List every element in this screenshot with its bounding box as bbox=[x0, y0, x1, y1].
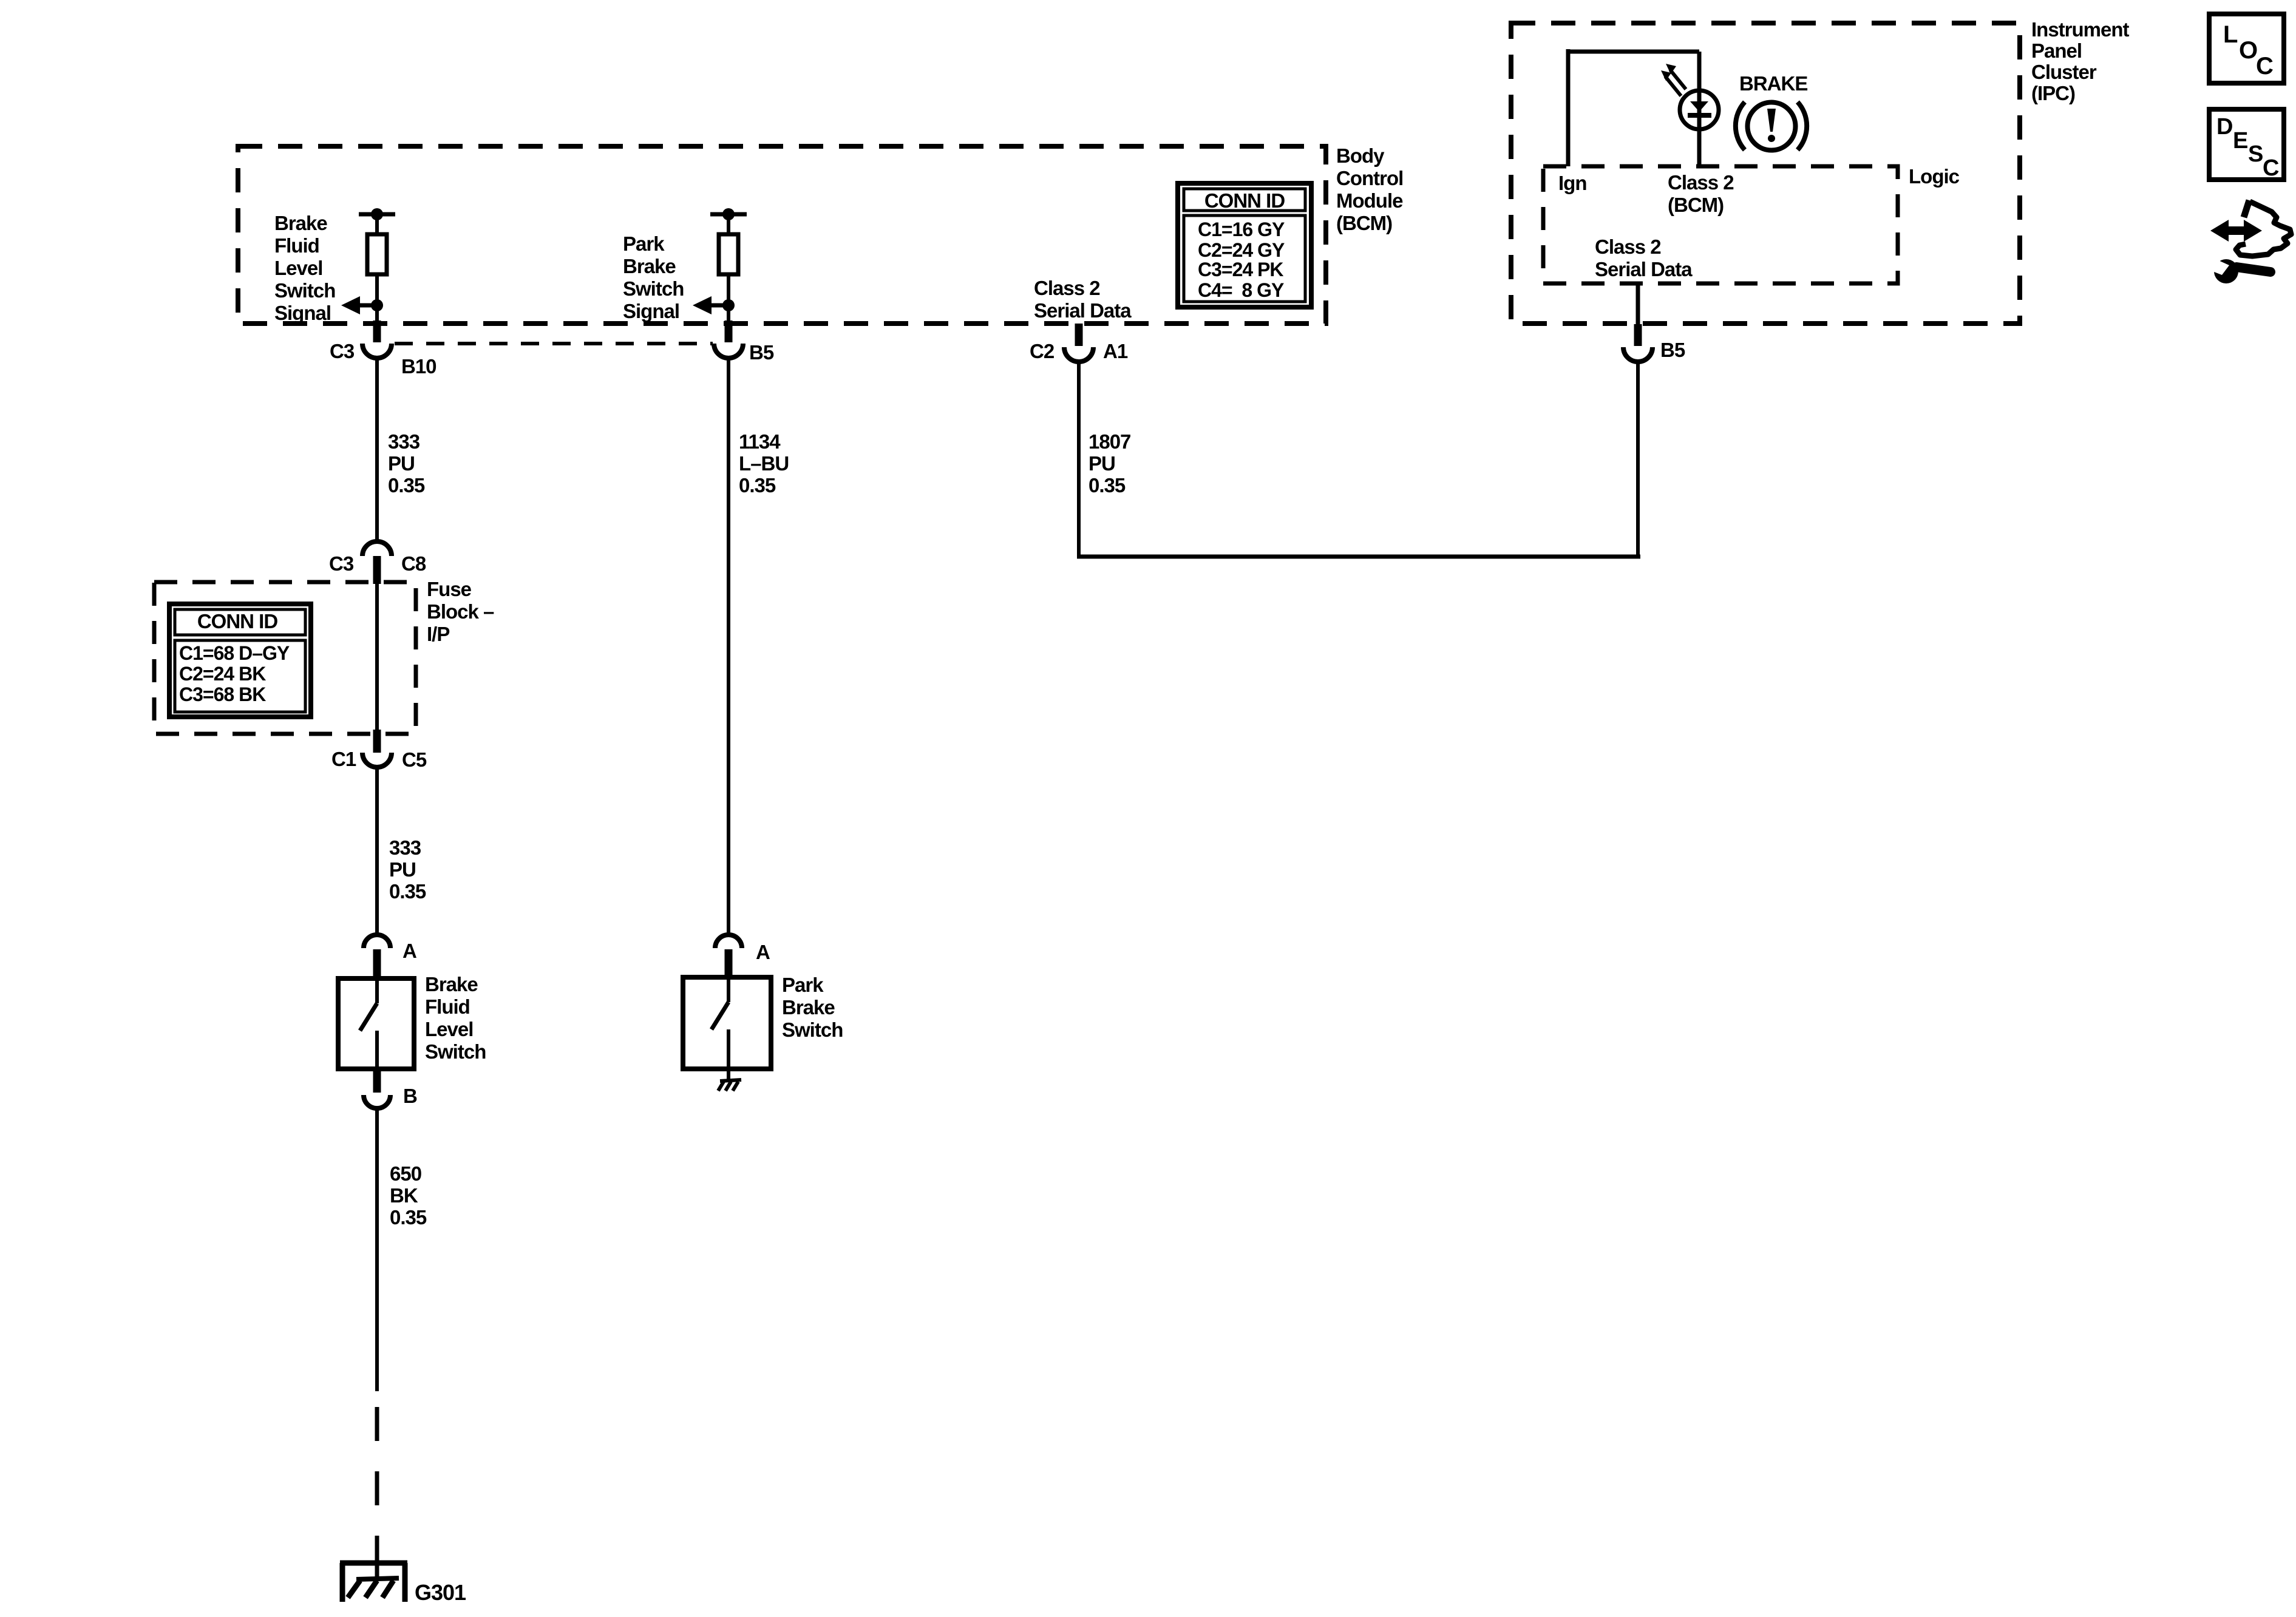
svg-text:Class 2: Class 2 bbox=[1034, 277, 1100, 299]
svg-text:C3=68 BK: C3=68 BK bbox=[179, 683, 266, 705]
connector C2 / A1 bbox=[1030, 340, 1128, 362]
svg-text:C3=24 PK: C3=24 PK bbox=[1198, 259, 1283, 280]
svg-text:C2=24 GY: C2=24 GY bbox=[1198, 239, 1285, 261]
arrow signal out column 2 bbox=[693, 296, 729, 314]
svg-text:Serial Data: Serial Data bbox=[1034, 299, 1132, 322]
label Class 2 Serial Data (IPC) bbox=[1595, 236, 1693, 280]
svg-text:Module: Module bbox=[1336, 189, 1403, 212]
svg-text:Switch: Switch bbox=[274, 279, 335, 302]
icon LOC box bbox=[2209, 14, 2284, 83]
icon hand with double arrow and wrench bbox=[2208, 200, 2291, 283]
svg-text:Cluster: Cluster bbox=[2031, 61, 2097, 83]
wire top bar column 1 bbox=[359, 212, 395, 217]
svg-text:1807: 1807 bbox=[1089, 430, 1130, 453]
connector C3 / C8 (fuse block) bbox=[329, 541, 426, 575]
box Instrument Panel Cluster (IPC) dashed outline bbox=[1511, 23, 2020, 324]
wire below connector B5 IPC bbox=[1636, 362, 1640, 558]
wire stub into park brake switch bbox=[725, 949, 733, 977]
svg-text:Instrument: Instrument bbox=[2031, 18, 2130, 41]
svg-text:L–BU: L–BU bbox=[739, 452, 789, 475]
wire top horizontal IPC bbox=[1566, 50, 1699, 54]
svg-text:Brake: Brake bbox=[623, 255, 676, 277]
svg-text:C1=68 D–GY: C1=68 D–GY bbox=[179, 642, 290, 664]
icon DESC box bbox=[2209, 109, 2284, 181]
label Instrument Panel Cluster (IPC) bbox=[2031, 18, 2130, 104]
connector B5 (IPC) bbox=[1623, 339, 1685, 362]
svg-text:Signal: Signal bbox=[623, 300, 679, 322]
svg-text:Switch: Switch bbox=[623, 277, 684, 300]
svg-text:O: O bbox=[2239, 37, 2257, 64]
connector C3 / B10 bbox=[330, 340, 436, 378]
wire 1134 L-BU bbox=[727, 358, 730, 935]
table CONN ID (BCM) bbox=[1178, 183, 1311, 307]
svg-text:C8: C8 bbox=[401, 552, 426, 575]
svg-text:Ign: Ign bbox=[1558, 172, 1586, 194]
svg-text:333: 333 bbox=[388, 430, 420, 453]
svg-text:(IPC): (IPC) bbox=[2031, 82, 2075, 104]
wire stub at fuse block exit bbox=[373, 730, 381, 753]
svg-text:Brake: Brake bbox=[274, 212, 327, 234]
svg-text:Fuse: Fuse bbox=[427, 578, 472, 600]
wire stub at BCM edge column 1 bbox=[373, 320, 381, 342]
svg-text:C4= 8 GY: C4= 8 GY bbox=[1198, 279, 1284, 301]
wire class 2 serial data horizontal bbox=[1077, 555, 1640, 559]
wire LED vertical bbox=[1697, 52, 1702, 166]
svg-text:BK: BK bbox=[390, 1184, 418, 1207]
svg-text:0.35: 0.35 bbox=[389, 880, 426, 903]
wire inside fuse block bbox=[375, 584, 379, 731]
svg-text:0.35: 0.35 bbox=[739, 474, 776, 497]
label wire 333 PU 0.35 lower bbox=[389, 836, 426, 903]
svg-text:A: A bbox=[402, 940, 416, 962]
svg-text:Class 2: Class 2 bbox=[1595, 236, 1661, 258]
wire stub at BCM edge class 2 bbox=[1075, 324, 1083, 346]
svg-text:(BCM): (BCM) bbox=[1668, 194, 1724, 216]
dotted in-line connector line C3 to B5 bbox=[395, 342, 713, 345]
svg-text:B10: B10 bbox=[401, 355, 436, 378]
label wire 1807 PU 0.35 bbox=[1089, 430, 1130, 497]
wire bbox=[375, 214, 379, 234]
svg-text:1134: 1134 bbox=[739, 430, 781, 453]
wire 333 PU lower bbox=[375, 767, 379, 935]
svg-text:Brake: Brake bbox=[782, 996, 835, 1019]
svg-text:B5: B5 bbox=[1660, 339, 1685, 361]
wire bbox=[727, 274, 730, 322]
label wire 650 BK 0.35 bbox=[390, 1162, 427, 1229]
label Class 2 (BCM) bbox=[1668, 171, 1734, 216]
svg-text:Switch: Switch bbox=[782, 1019, 843, 1041]
svg-text:Brake: Brake bbox=[425, 973, 478, 995]
svg-text:C1: C1 bbox=[331, 748, 356, 770]
svg-text:C3: C3 bbox=[330, 340, 355, 362]
connector B (brake fluid level switch) bbox=[364, 1085, 417, 1108]
box Logic dashed outline bbox=[1543, 166, 1898, 283]
svg-text:A1: A1 bbox=[1103, 340, 1128, 362]
wire bbox=[375, 274, 379, 322]
svg-text:(BCM): (BCM) bbox=[1336, 212, 1392, 234]
LED indicator (BRAKE lamp) bbox=[1661, 64, 1719, 129]
svg-text:Control: Control bbox=[1336, 167, 1403, 189]
node junction dot column 1 top bbox=[371, 208, 383, 220]
svg-text:C2=24 BK: C2=24 BK bbox=[179, 663, 266, 685]
wire stub into fuse block bbox=[373, 556, 381, 584]
node junction dot column 2 top bbox=[722, 208, 735, 220]
wire 1807 PU vertical bbox=[1077, 362, 1081, 558]
connector A (brake fluid level switch) bbox=[364, 935, 416, 962]
label wire 1134 L-BU 0.35 bbox=[739, 430, 789, 497]
svg-text:PU: PU bbox=[388, 452, 415, 475]
label Brake Fluid Level Switch bbox=[425, 973, 486, 1063]
svg-text:PU: PU bbox=[1089, 452, 1115, 475]
svg-text:Level: Level bbox=[274, 257, 322, 279]
svg-text:0.35: 0.35 bbox=[390, 1206, 427, 1229]
label Body Control Module (BCM) bbox=[1336, 144, 1403, 234]
svg-text:CONN ID: CONN ID bbox=[1204, 189, 1285, 212]
svg-text:C5: C5 bbox=[402, 748, 427, 771]
wire top bar column 2 bbox=[710, 212, 747, 217]
switch S2 Park Brake Switch bbox=[683, 977, 771, 1069]
ground chassis (park brake switch) bbox=[718, 1069, 741, 1091]
label wire 333 PU 0.35 bbox=[388, 430, 425, 497]
connector A (park brake switch) bbox=[715, 935, 770, 963]
label Fuse Block - I/P bbox=[427, 578, 494, 645]
box Fuse Block - I/P dashed outline bbox=[154, 582, 416, 734]
svg-text:B: B bbox=[403, 1085, 417, 1107]
svg-text:Fluid: Fluid bbox=[425, 995, 470, 1018]
svg-text:Switch: Switch bbox=[425, 1040, 486, 1063]
wire 333 PU bbox=[375, 358, 379, 542]
table CONN ID (fuse block) bbox=[169, 604, 311, 717]
svg-text:I/P: I/P bbox=[427, 623, 449, 645]
wire bbox=[727, 214, 730, 234]
wire stub at IPC edge bbox=[1634, 324, 1642, 346]
svg-text:Logic: Logic bbox=[1909, 165, 1960, 188]
wire dashed to ground bbox=[375, 1407, 379, 1551]
svg-text:D: D bbox=[2216, 114, 2232, 140]
svg-text:C1=16 GY: C1=16 GY bbox=[1198, 219, 1285, 240]
label Brake Fluid Level Switch Signal bbox=[274, 212, 335, 324]
svg-text:A: A bbox=[756, 941, 770, 963]
svg-text:0.35: 0.35 bbox=[388, 474, 425, 497]
wire class 2 serial data IPC vertical bbox=[1636, 283, 1640, 324]
svg-text:S: S bbox=[2248, 141, 2263, 167]
svg-text:B5: B5 bbox=[749, 341, 774, 364]
svg-text:Park: Park bbox=[623, 232, 665, 255]
wire stub into switch bbox=[373, 949, 381, 978]
ground G301 bbox=[340, 1549, 466, 1605]
svg-text:G301: G301 bbox=[415, 1580, 466, 1605]
resistor R1 (brake fluid pull-up) bbox=[367, 234, 387, 274]
svg-text:Level: Level bbox=[425, 1018, 473, 1040]
svg-text:BRAKE: BRAKE bbox=[1739, 72, 1807, 95]
label Class 2 Serial Data (BCM pin) bbox=[1034, 277, 1132, 322]
svg-text:C: C bbox=[2263, 155, 2279, 181]
label Park Brake Switch bbox=[782, 974, 843, 1041]
svg-text:Class 2: Class 2 bbox=[1668, 171, 1734, 194]
svg-text:CONN ID: CONN ID bbox=[197, 610, 278, 632]
svg-text:650: 650 bbox=[390, 1162, 421, 1185]
wire Ign vertical bbox=[1566, 49, 1571, 166]
svg-text:333: 333 bbox=[389, 836, 421, 859]
svg-text:C2: C2 bbox=[1030, 340, 1055, 362]
wire stub below switch bbox=[373, 1068, 381, 1093]
box Body Control Module (BCM) dashed outline bbox=[238, 146, 1326, 324]
svg-text:E: E bbox=[2233, 128, 2247, 154]
svg-text:Block –: Block – bbox=[427, 600, 494, 623]
svg-text:C3: C3 bbox=[329, 552, 354, 575]
svg-text:Park: Park bbox=[782, 974, 824, 996]
node junction dot column 2 arrow bbox=[722, 299, 735, 311]
svg-text:0.35: 0.35 bbox=[1089, 474, 1126, 497]
svg-text:Panel: Panel bbox=[2031, 39, 2082, 62]
svg-text:L: L bbox=[2223, 21, 2238, 48]
node junction dot column 1 arrow bbox=[371, 299, 383, 311]
resistor R2 (park brake pull-up) bbox=[719, 234, 738, 274]
svg-text:Signal: Signal bbox=[274, 302, 331, 324]
connector C1 / C5 bbox=[331, 748, 427, 771]
svg-text:Serial Data: Serial Data bbox=[1595, 258, 1693, 280]
svg-text:C: C bbox=[2256, 53, 2273, 80]
svg-text:PU: PU bbox=[389, 858, 416, 881]
svg-text:Body: Body bbox=[1336, 144, 1385, 167]
svg-text:Fluid: Fluid bbox=[274, 234, 319, 257]
switch S1 Brake Fluid Level Switch bbox=[338, 978, 414, 1069]
wire stub at BCM edge column 2 bbox=[725, 320, 733, 342]
label Park Brake Switch Signal bbox=[623, 232, 684, 322]
connector B5 (BCM park brake) bbox=[714, 341, 774, 364]
icon brake warning ((!)) bbox=[1736, 102, 1807, 151]
arrow signal out column 1 bbox=[341, 296, 377, 314]
wire 650 BK bbox=[375, 1108, 379, 1391]
